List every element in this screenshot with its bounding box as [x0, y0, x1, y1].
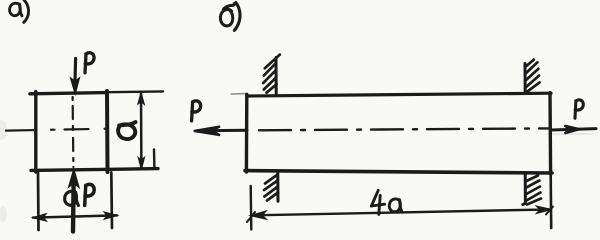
bottom-left wall line — [276, 173, 279, 201]
label b) — [220, 3, 240, 31]
vertical centerline — [71, 97, 74, 167]
arrow overshoot strokes — [247, 212, 255, 222]
dimension label 4a : digit 4 — [371, 190, 384, 214]
bar: top edge — [247, 93, 551, 96]
right dimension arrowhead down — [138, 157, 144, 169]
bottom force label P — [85, 184, 94, 205]
bar centerline — [259, 128, 548, 130]
label a) — [10, 0, 29, 22]
bottom force P arrowhead (up) — [69, 171, 78, 186]
left force label P — [192, 101, 201, 121]
square cross-section: top edge — [30, 93, 107, 94]
bar: bottom edge — [245, 171, 552, 173]
left force arrowhead (left) — [194, 126, 220, 135]
rotated dimension label a — [118, 122, 135, 139]
bar: right edge — [548, 93, 552, 174]
bottom dimension arrowhead right — [537, 206, 551, 213]
horizontal centerline — [6, 129, 112, 131]
bottom dimension line — [251, 209, 551, 215]
top-left wall line — [275, 58, 278, 95]
square cross-section: bottom edge (extends right as extension line) — [31, 169, 158, 171]
bottom dimension arrowhead left — [251, 211, 265, 218]
top-right wall hatching — [525, 60, 540, 93]
right force label P — [575, 100, 583, 118]
dimension label 4a : letter a — [389, 199, 402, 212]
bottom dimension: left extension line — [37, 173, 40, 231]
bottom-right wall hatching — [525, 176, 541, 205]
bottom dimension: left extension line — [249, 186, 252, 230]
square cross-section: left edge — [34, 92, 37, 172]
bar: faint top-edge overshoot — [231, 93, 247, 95]
bottom dimension line — [33, 215, 117, 217]
top force P arrowhead (down) — [71, 79, 79, 93]
bottom-left wall hatching — [264, 175, 278, 201]
right force arrow shaft — [552, 129, 597, 130]
stray tick — [153, 150, 156, 169]
bar: left edge — [245, 95, 249, 173]
bottom dimension label a — [65, 191, 79, 205]
right force arrowhead (right) — [565, 126, 581, 134]
bottom force P arrow shaft — [71, 183, 76, 232]
top force label P — [85, 53, 94, 73]
bottom dimension arrowhead left — [33, 214, 46, 221]
bottom dimension arrowhead right — [104, 212, 116, 219]
top-left wall hatching — [263, 55, 280, 93]
right dimension arrowhead up — [138, 92, 144, 104]
top-right wall line — [524, 64, 527, 93]
square cross-section: right edge — [105, 91, 110, 172]
bottom-right wall line — [523, 174, 526, 205]
left force arrow shaft — [197, 129, 247, 133]
top force P arrow shaft — [73, 59, 77, 82]
bottom dimension: right extension line — [110, 173, 113, 229]
bottom dimension: right extension line — [549, 174, 552, 228]
right dimension line (vertical) — [140, 93, 143, 169]
right dimension: top extension line — [108, 90, 163, 93]
